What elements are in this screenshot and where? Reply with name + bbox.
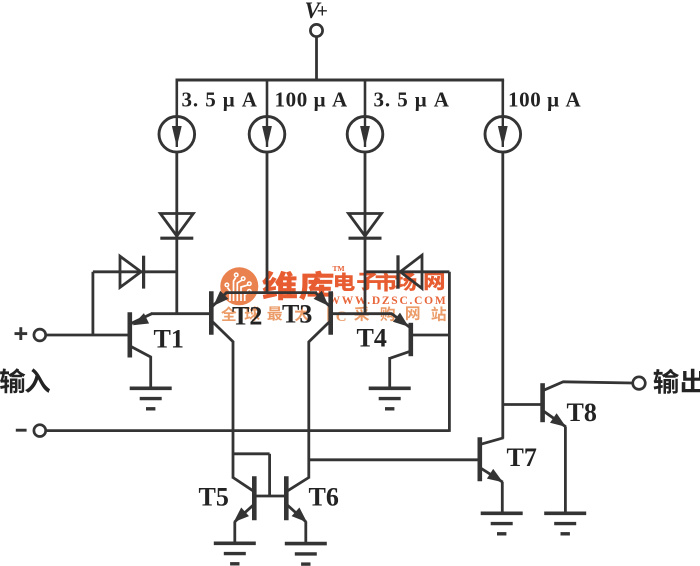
svg-text:T4: T4 — [357, 324, 387, 353]
transistor T1 — [128, 312, 133, 357]
transistor T2 — [209, 291, 214, 334]
wire + input to T1 base — [46, 334, 129, 337]
transistor T4 — [408, 323, 413, 356]
svg-text:3. 5 μ A: 3. 5 μ A — [374, 88, 450, 112]
label 输入 — [0, 368, 25, 393]
diode D1 — [160, 214, 193, 237]
current source I4 100uA — [501, 80, 504, 117]
wire - input — [46, 429, 450, 432]
transistor T5 — [252, 476, 257, 520]
svg-text:+: + — [317, 2, 328, 23]
svg-text:T8: T8 — [567, 398, 597, 427]
current source I2 100uA — [266, 80, 269, 117]
terminal + input — [34, 329, 46, 341]
svg-text:100 μ A: 100 μ A — [275, 88, 349, 112]
wire T6 emitter drop — [304, 522, 307, 544]
current source I3 3.5uA — [364, 80, 367, 117]
wire T1 emitter / T2 base — [152, 312, 213, 315]
wire T6 collector to T7 base — [309, 458, 480, 461]
watermark slogan row — [221, 306, 236, 321]
svg-text:100 μ A: 100 μ A — [508, 88, 582, 112]
svg-text:T2: T2 — [232, 301, 262, 330]
transistor T8 — [540, 383, 545, 422]
wire T4 base — [411, 334, 450, 337]
wire mirror tap drop — [268, 454, 271, 496]
svg-text:TM: TM — [333, 264, 345, 273]
minus sign — [16, 429, 27, 432]
watermark 电子市场网 — [335, 273, 355, 291]
wire output — [563, 382, 632, 383]
wire T3 collector drop — [307, 341, 310, 478]
ground T8 — [544, 511, 586, 515]
wire I1 to D1 to node A — [175, 152, 178, 316]
ground T7 — [481, 511, 523, 515]
wire T7 emitter drop — [501, 482, 504, 513]
wire common emitter rail T2-T3 — [226, 291, 318, 294]
svg-text:T1: T1 — [154, 325, 184, 354]
ground T4 — [369, 386, 411, 390]
svg-text:3. 5 μ A: 3. 5 μ A — [182, 88, 258, 112]
terminal output — [633, 377, 646, 390]
watermark logo disc — [220, 267, 258, 305]
current source I1 3.5uA — [176, 80, 179, 117]
wire T3 base to T4 emitter — [331, 312, 392, 315]
wire right vertical to - input — [448, 272, 451, 432]
wire T4 collector drop — [388, 357, 391, 388]
terminal - input — [34, 425, 46, 437]
wire mirror tap horizontal — [233, 452, 270, 455]
wire D4 horizontal — [365, 270, 449, 273]
wire I2 drop — [266, 152, 269, 293]
wire T2 collector drop — [232, 341, 235, 478]
wire I4 drop to T7 — [501, 152, 504, 439]
svg-text:T7: T7 — [507, 443, 537, 472]
svg-text:C: C — [336, 309, 347, 325]
wire D3 horizontal — [93, 270, 177, 273]
wire V+ stem — [315, 37, 318, 81]
wire T8 base from T7 collector — [503, 403, 543, 406]
watermark 维库 — [262, 271, 297, 301]
transistor T6 — [284, 476, 289, 520]
plus sign — [15, 332, 28, 335]
svg-text:WWW.DZSC.COM: WWW.DZSC.COM — [329, 295, 448, 307]
svg-text:T5: T5 — [199, 483, 229, 512]
diode D3 — [120, 256, 141, 287]
diode D2 — [349, 214, 382, 237]
wire T5 emitter drop — [233, 522, 236, 544]
ground T6 — [285, 542, 327, 546]
ground T5 — [214, 541, 256, 545]
ground T1 — [130, 386, 172, 390]
wire T5-T6 base link — [254, 495, 286, 498]
label 输出 — [654, 369, 679, 394]
V+ terminal — [310, 24, 322, 36]
wire D3 drop to + input — [92, 272, 95, 335]
wire I3 to D2 to node B — [364, 152, 367, 316]
transistor T3 — [328, 291, 333, 334]
wire T1 collector drop — [149, 356, 152, 388]
wire T8 emitter drop — [564, 427, 567, 514]
transistor T7 — [477, 437, 482, 481]
svg-text:T3: T3 — [282, 300, 312, 329]
diode D4 — [400, 255, 422, 288]
wire top supply rail — [176, 79, 505, 82]
svg-text:T6: T6 — [309, 483, 339, 512]
